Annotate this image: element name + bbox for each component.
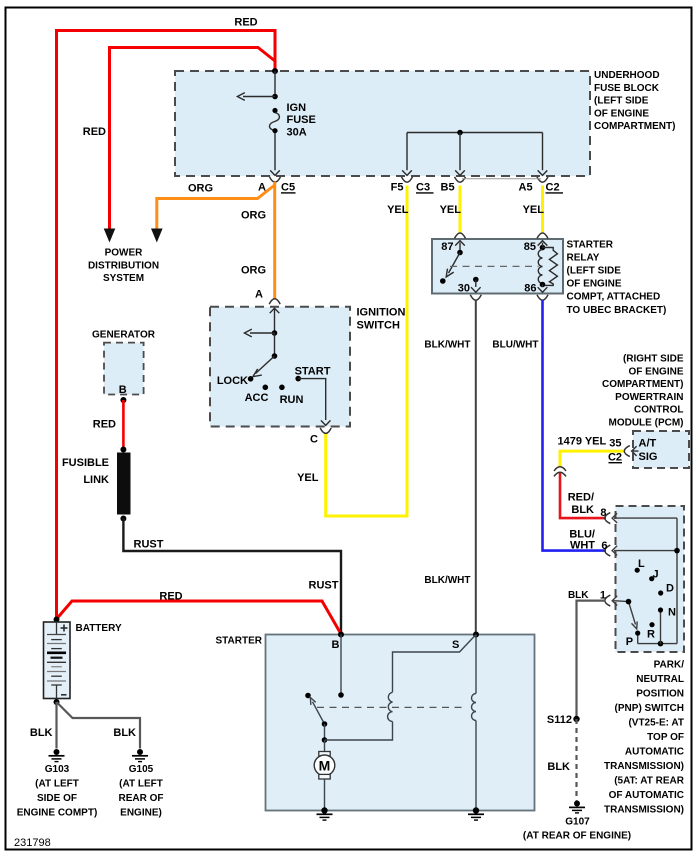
svg-text:1479 YEL: 1479 YEL [558,436,607,448]
svg-text:(RIGHT SIDE: (RIGHT SIDE [623,354,684,365]
svg-text:M: M [319,757,331,773]
ignition START to pin C wire with arrow [298,379,330,426]
wire BLK PNP pin 1 to S112 [577,601,606,719]
contact D [658,590,663,595]
PNP P contact branch [637,633,639,644]
wire RED battery positive bus (left vertical + top run to fuse block) [57,31,276,620]
relay contact 30 side [440,278,446,284]
splice S112 [573,716,579,722]
svg-text:231798: 231798 [14,837,51,849]
connector C2 pin A5 cup [537,177,548,182]
svg-text:LINK: LINK [83,474,109,486]
PNP bottom bus junction [658,641,664,647]
PNP pin 8 arrow and internal wire [612,513,677,523]
svg-text:CONTROL: CONTROL [634,405,683,416]
svg-text:RED: RED [83,126,106,138]
svg-text:FUSE: FUSE [287,114,316,126]
svg-text:BLK/WHT: BLK/WHT [424,575,470,586]
relay pin 86 contact [540,282,546,288]
svg-text:B5: B5 [441,182,455,194]
svg-text:POWERTRAIN: POWERTRAIN [615,392,683,403]
G107 label [523,817,631,842]
battery negative junction [54,699,60,705]
PCM pin 35 arrow [632,446,639,456]
svg-text:ACC: ACC [245,392,269,404]
svg-text:STARTER: STARTER [216,636,263,647]
feed arrow to other circuits (left) [237,93,275,101]
starter hold-in winding ground [468,807,484,820]
svg-text:RUN: RUN [280,394,304,406]
svg-text:STARTER: STARTER [567,240,614,251]
fusible link element [117,453,131,515]
ignition switch blade toward LOCK [253,356,275,377]
ignition switch box [210,307,350,427]
connector C2 label (PCM) [608,452,622,464]
starter motor ground [317,807,333,820]
svg-text:D: D [666,583,674,595]
svg-text:J: J [653,569,659,581]
svg-text:ORG: ORG [241,265,266,277]
svg-text:ENGINE COMPT): ENGINE COMPT) [17,807,98,818]
svg-text:C3: C3 [416,182,430,194]
PNP N contact branch [660,610,662,644]
svg-text:BLK: BLK [571,504,594,516]
contact N [658,607,663,612]
inline connector (two cups) [554,467,566,477]
fusible link label [62,457,109,486]
svg-text:S112: S112 [547,714,572,726]
PNP blade pivot [626,599,632,605]
relay pin 30 arrow down [471,280,481,293]
powertrain control module (PCM) label [602,354,684,429]
svg-text:30A: 30A [287,127,307,139]
wire from fuse to pin A C5 with arrow [270,133,280,175]
contact R [649,622,654,627]
wire to pin A5 with arrow [538,133,548,176]
svg-text:L: L [638,558,645,570]
svg-text:BLU/WHT: BLU/WHT [492,340,538,351]
fusible link bottom node [120,516,126,522]
ignition wiper pivot [272,353,278,359]
PNP pin 1 cup [605,595,611,606]
PNP pin 6 cup [605,545,611,556]
battery bottom stub [56,685,58,699]
relay pin 86 cup [537,295,548,300]
svg-text:SWITCH: SWITCH [357,320,400,332]
relay switch pivot [457,250,463,256]
junction on internal bus [457,130,463,136]
wire RED battery to starter B [57,601,342,634]
wire RED branch to power distribution system [110,48,276,230]
svg-text:TRANSMISSION): TRANSMISSION) [604,805,684,816]
relay pin 30 cup [470,295,481,300]
svg-text:P: P [626,636,633,648]
svg-text:YEL: YEL [440,204,462,216]
connector C3 label [416,182,434,194]
starter relay box [432,239,563,294]
svg-text:GENERATOR: GENERATOR [92,330,156,341]
svg-text:A: A [255,289,263,301]
svg-text:PARK/: PARK/ [654,659,685,670]
svg-text:RUST: RUST [134,539,164,551]
starter pin B junction [338,632,344,638]
ignition switch pin A cup [269,299,280,304]
svg-text:POSITION: POSITION [636,688,684,699]
svg-text:RUST: RUST [309,580,339,592]
relay switch blade [446,253,460,277]
svg-text:C2: C2 [608,452,622,464]
svg-text:N: N [668,607,676,619]
ignition internal feed arrow up [270,308,280,333]
relay parallel resistor [543,248,558,286]
svg-text:TO UBEC BRACKET): TO UBEC BRACKET) [567,305,667,316]
connector C2 label [546,182,564,194]
starter pin S junction [473,632,479,638]
PCM pin 35 cup [624,446,630,457]
ignition internal junction [272,330,278,336]
connector C3 pin F5 cup [402,177,413,182]
svg-text:OF AUTOMATIC: OF AUTOMATIC [609,790,684,801]
svg-text:S: S [452,639,459,651]
svg-text:COMPARTMENT): COMPARTMENT) [594,121,675,132]
svg-text:(LEFT SIDE: (LEFT SIDE [594,96,649,107]
svg-text:B: B [332,639,340,651]
contact ACC [263,385,269,391]
svg-text:LOCK: LOCK [217,375,248,387]
PNP pin 6 arrow and internal wire [612,546,677,556]
wire ORG C5 to ignition switch A [273,182,276,299]
svg-text:RELAY: RELAY [567,253,600,264]
IGN fuse 30A element [269,108,279,133]
connector pin B5 cup [455,177,466,182]
contact P [635,631,640,636]
wire BLK/WHT relay 30 to starter S [475,301,477,635]
svg-text:UNDERHOOD: UNDERHOOD [594,70,660,81]
wire RED generator to fusible link [122,400,125,450]
PNP switch label [604,659,685,815]
svg-text:TRANSMISSION): TRANSMISSION) [604,761,684,772]
svg-text:RED/: RED/ [568,492,594,504]
svg-text:OF ENGINE: OF ENGINE [567,279,622,290]
svg-text:8: 8 [600,507,606,519]
starter B stub end node [338,692,344,698]
ground G107 [569,801,585,813]
svg-text:6: 6 [601,540,607,552]
svg-text:G107: G107 [565,817,590,828]
battery cell plates [47,635,66,686]
svg-text:35: 35 [609,438,621,450]
starter wire S to pull-in winding [393,635,477,693]
PNP internal right bus [676,518,678,644]
svg-text:BLK: BLK [568,590,589,601]
svg-text:YEL: YEL [523,204,545,216]
svg-text:RED: RED [93,419,116,431]
svg-text:RED: RED [234,17,257,29]
relay pin 85 contact [540,245,546,251]
svg-text:COMPARTMENT): COMPARTMENT) [602,379,683,390]
arrow to power distribution (red) [104,229,116,243]
relay coil 85-86 [538,250,542,284]
battery positive junction [54,617,60,623]
svg-text:MODULE (PCM): MODULE (PCM) [609,417,684,428]
ignition feed arrow left [244,329,274,337]
generator box [104,343,144,395]
svg-text:POWER: POWER [105,248,144,259]
svg-text:BLK: BLK [547,761,570,773]
svg-text:C5: C5 [281,182,295,194]
svg-text:B: B [119,384,127,396]
svg-text:ORG: ORG [188,183,213,195]
wire RED/BLK to PNP pin 8 [560,473,606,518]
svg-text:G103: G103 [45,764,70,775]
wire BLU/WHT relay 86 to PNP pin 6 [543,300,607,551]
svg-text:C2: C2 [546,182,560,194]
contact LOCK [248,376,254,382]
fuse block internal bus (F5-B5-A5) [407,132,543,134]
contact J [649,576,654,581]
svg-text:(AT REAR OF ENGINE): (AT REAR OF ENGINE) [523,831,631,842]
svg-text:START: START [295,366,331,378]
svg-text:(LEFT SIDE: (LEFT SIDE [567,266,622,277]
svg-text:30: 30 [458,283,470,295]
relay pin 87 arrow [455,241,465,253]
svg-text:86: 86 [524,283,536,295]
wire YEL ignition C to fuse block F5 [326,186,407,517]
starter hold-in winding coil [472,694,477,721]
relay pin 30 contact [473,277,479,283]
PCM A/T SIG box [633,431,689,468]
contact RUN [279,385,285,391]
starter box [266,635,535,811]
ground G103 [49,749,65,762]
relay pin 87 cup [455,233,466,238]
starter junction to solenoid [322,737,328,743]
svg-text:FUSE BLOCK: FUSE BLOCK [594,83,660,94]
svg-text:REAR OF: REAR OF [119,793,164,804]
svg-text:A5: A5 [519,182,533,194]
svg-text:DISTRIBUTION: DISTRIBUTION [88,260,159,271]
svg-text:YEL: YEL [297,472,319,484]
wire to pin F5 with arrow [402,133,412,176]
svg-text:G105: G105 [129,764,154,775]
ground G105 [132,749,148,762]
wire YEL fuse B5 to relay 87 [459,186,462,234]
svg-text:C: C [310,434,318,446]
starter wire to pull-in winding [325,722,393,741]
svg-text:(VT25-E: AT: (VT25-E: AT [628,718,684,729]
relay pin 86 arrow down [538,285,548,293]
svg-text:YEL: YEL [387,204,409,216]
wire inside fuse block to IGN fuse [274,71,276,97]
wire to pin B5 with arrow [455,133,465,176]
POWER DISTRIBUTION SYSTEM label [88,248,159,285]
fusible link top node [120,447,126,453]
svg-text:TOP OF: TOP OF [647,732,684,743]
starter hold-in winding to ground [475,721,477,811]
starter internal node [324,724,326,740]
PNP selector blade [629,602,638,629]
ignition wiper stem [274,333,276,356]
starter S internal bus [475,635,477,694]
starter blade pivot [322,721,328,727]
svg-text:BLK: BLK [30,727,53,739]
starter solenoid mechanical link (dashed) [317,706,466,708]
G105 label [119,764,164,819]
node fuse block B+ junction [272,68,278,74]
wire BLK battery to G103 [55,702,57,749]
svg-text:OF ENGINE: OF ENGINE [628,366,683,377]
svg-text:R: R [647,629,655,641]
wire RED/BLK label [568,492,594,517]
PNP bus junction at pin 6 [674,548,680,554]
svg-text:SYSTEM: SYSTEM [103,273,144,284]
svg-text:IGN: IGN [287,102,307,114]
ignition switch label [357,307,406,332]
PNP bottom bus [638,643,677,645]
wire 1479 YEL PCM 35 to inline connector [560,451,625,467]
starter motor M [314,740,335,811]
svg-text:ORG: ORG [241,209,266,221]
svg-text:AUTOMATIC: AUTOMATIC [625,747,684,758]
svg-text:85: 85 [524,241,536,253]
PNP pin 1 arrow [612,596,628,606]
junction inside fuse block [272,94,278,100]
battery plus sign [61,625,68,632]
svg-text:BATTERY: BATTERY [76,623,122,634]
svg-text:(AT LEFT: (AT LEFT [35,778,79,789]
svg-text:FUSIBLE: FUSIBLE [62,457,109,469]
starter switch blade [310,697,324,724]
svg-text:IGNITION: IGNITION [357,307,406,319]
battery minus sign [61,694,67,696]
wire RUST fusible link to starter B [123,519,341,635]
G103 label [17,764,98,819]
svg-text:COMPT, ATTACHED: COMPT, ATTACHED [567,292,661,303]
svg-text:SIG: SIG [639,451,658,463]
svg-text:WHT: WHT [570,540,595,552]
svg-text:OF ENGINE: OF ENGINE [594,108,649,119]
arrow to power distribution (org) [151,229,163,243]
relay mechanical link (dashed) [450,265,539,267]
IGN FUSE 30A value label [287,102,316,139]
svg-text:87: 87 [441,241,453,253]
battery top stub [56,622,58,635]
svg-text:F5: F5 [391,182,404,194]
svg-text:(PNP) SWITCH: (PNP) SWITCH [615,703,684,714]
wire ORG branch to power distribution [157,185,275,229]
relay pin 85 cup [537,233,548,238]
connector housing line between B5 and A5 [462,178,541,180]
starter relay label [567,240,667,316]
underhood fuse block label [594,70,675,132]
svg-text:BLK: BLK [113,727,136,739]
starter B internal stub [340,635,342,696]
svg-text:(AT LEFT: (AT LEFT [119,778,163,789]
contact START [295,376,301,382]
svg-text:(5AT: AT REAR: (5AT: AT REAR [614,776,685,787]
relay pin 85 arrow [538,241,548,248]
ignition pin C cup [320,428,331,433]
wire BLU/WHT label (at PNP) [569,528,595,551]
underhood fuse block box [175,71,590,176]
starter pull-in winding coil [388,692,393,721]
PNP pin 8 cup [605,513,611,524]
wire BLK battery to G105 [57,702,141,749]
svg-text:SIDE OF: SIDE OF [37,793,77,804]
svg-text:NEUTRAL: NEUTRAL [636,674,684,685]
svg-text:RED: RED [159,591,182,603]
svg-text:ENGINE): ENGINE) [120,807,162,818]
contact L [635,568,640,573]
connector C5 label [281,182,296,194]
generator pin B node [120,397,126,403]
battery box [44,622,71,699]
starter switch fixed contact [305,693,311,699]
svg-text:BLK/WHT: BLK/WHT [424,340,470,351]
connector C5 pin A cup [270,177,281,182]
wire BLK S112 to G107 (dashed) [575,719,577,801]
svg-text:A/T: A/T [639,438,657,450]
park/neutral position switch box [616,506,685,652]
wire YEL fuse A5 to relay 85 [541,186,544,234]
A/T SIG pin label [639,438,658,464]
